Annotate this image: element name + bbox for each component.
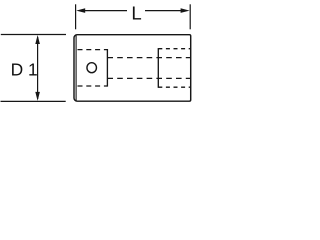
dimension D1 arrowhead bottom <box>35 92 40 101</box>
through bore bottom hidden line <box>107 77 190 79</box>
set screw hole <box>87 63 97 73</box>
dimension D1 arrowhead top <box>35 35 40 44</box>
left counterbore top hidden line <box>78 49 108 51</box>
svg-text:L: L <box>131 3 141 24</box>
left bore step <box>106 49 108 87</box>
right counterbore top hidden line <box>158 48 190 50</box>
svg-text:D 1: D 1 <box>11 59 38 79</box>
dimension L arrowhead right <box>181 8 190 13</box>
dimension D1 extension line top <box>1 34 66 36</box>
dimension D1 line <box>37 37 39 99</box>
body outline <box>74 35 191 102</box>
dimension D1 extension line bottom <box>1 100 66 102</box>
left counterbore bottom hidden line <box>78 85 108 87</box>
dimension L extension line left <box>75 4 77 29</box>
dimension L extension line right <box>189 4 191 29</box>
right bore step <box>157 48 159 88</box>
right counterbore bottom hidden line <box>158 86 190 88</box>
left face inner edge <box>75 35 77 100</box>
through bore top hidden line <box>107 57 190 59</box>
dimension L line left segment <box>84 10 127 12</box>
dimension L line right segment <box>145 10 182 12</box>
dimension L arrowhead left <box>76 8 85 13</box>
